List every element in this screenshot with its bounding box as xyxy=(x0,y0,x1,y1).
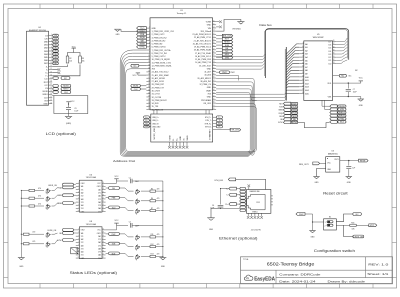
resistor R3 xyxy=(79,56,82,63)
svg-text:31_CTX3: 31_CTX3 xyxy=(152,94,160,96)
svg-text:C/C: C/C xyxy=(44,85,48,87)
svg-text:29: 29 xyxy=(333,49,335,51)
svg-text:28: 28 xyxy=(333,46,335,48)
svg-text:470: 470 xyxy=(157,244,160,246)
svg-text:VUSB: VUSB xyxy=(169,135,171,141)
status led rows U6 right xyxy=(106,187,164,215)
svg-text:18_A4_PWM_SDA0: 18_A4_PWM_SDA0 xyxy=(194,49,211,52)
svg-text:R16: R16 xyxy=(351,223,354,225)
svg-text:52: 52 xyxy=(213,33,215,35)
svg-text:MOSI: MOSI xyxy=(133,86,139,88)
ethernet jack J4 body xyxy=(247,190,271,214)
svg-text:19_A5_PWM_SCL0: 19_A5_PWM_SCL0 xyxy=(194,46,211,49)
svg-text:OE1#: OE1# xyxy=(81,183,85,185)
svg-text:PHI2O: PHI2O xyxy=(339,115,345,117)
svg-text:13: 13 xyxy=(302,56,304,58)
svg-text:VCC: VCC xyxy=(115,176,120,178)
svg-text:34: 34 xyxy=(213,89,215,91)
sub-module right pins and net boxes xyxy=(205,116,223,128)
svg-text:13: 13 xyxy=(102,250,104,252)
svg-text:Configuration switch: Configuration switch xyxy=(314,249,355,253)
svg-text:RES_OUT: RES_OUT xyxy=(222,35,232,37)
svg-text:48: 48 xyxy=(213,45,215,47)
svg-text:10k: 10k xyxy=(82,60,85,62)
capacitor C9 xyxy=(66,108,78,113)
svg-text:28: 28 xyxy=(213,108,215,110)
rev cell xyxy=(368,262,389,266)
title block frame xyxy=(241,257,393,284)
teensy left pins xyxy=(146,27,150,110)
svg-text:15_A1_PWM_RX3: 15_A1_PWM_RX3 xyxy=(195,58,211,61)
svg-text:26_A12_MOSI1: 26_A12_MOSI1 xyxy=(152,77,165,80)
status led rows U8 right xyxy=(106,233,164,261)
address bus riser elbows xyxy=(250,95,257,101)
capacitor C2 xyxy=(129,222,163,228)
svg-text:1Y4: 1Y4 xyxy=(81,255,84,257)
svg-text:39: 39 xyxy=(213,74,215,76)
wire teensy to sub-module xyxy=(154,110,209,114)
svg-text:2Y4: 2Y4 xyxy=(98,211,101,213)
svg-text:R12: R12 xyxy=(151,244,154,246)
svg-text:I2C: I2C xyxy=(64,78,68,80)
svg-text:SYNC: SYNC xyxy=(57,240,62,242)
svg-text:GND: GND xyxy=(207,68,212,70)
wire LCD power loop xyxy=(52,96,88,116)
svg-text:10nF: 10nF xyxy=(353,91,357,93)
svg-text:24: 24 xyxy=(302,92,304,94)
svg-text:16_A2_RX4_SCL1: 16_A2_RX4_SCL1 xyxy=(195,55,211,58)
svg-text:29_PWM_TX7: 29_PWM_TX7 xyxy=(152,87,164,89)
svg-text:VPB: VPB xyxy=(340,109,345,111)
svg-text:74LVC244A: 74LVC244A xyxy=(86,223,97,226)
ground reset right xyxy=(346,177,352,185)
svg-text:ETH_T-: ETH_T- xyxy=(205,120,211,122)
svg-text:34_RX8: 34_RX8 xyxy=(152,103,159,105)
svg-text:15: 15 xyxy=(102,244,104,246)
svg-text:(GND): (GND) xyxy=(66,123,72,125)
svg-text:VCC: VCC xyxy=(115,220,120,222)
wire config gnd xyxy=(312,214,324,231)
svg-text:SYNC: SYNC xyxy=(139,47,145,49)
sub-module bottom pins xyxy=(168,135,189,149)
ethernet jack right pins xyxy=(271,196,273,205)
power flag VCC teensy left xyxy=(133,73,147,77)
svg-text:CLK: CLK xyxy=(44,97,49,99)
status led rows U6 left xyxy=(21,186,76,210)
svg-text:55: 55 xyxy=(213,23,215,25)
svg-text:51: 51 xyxy=(213,36,215,38)
net label LEDS_OE U6 xyxy=(48,183,76,187)
svg-text:GND: GND xyxy=(19,266,24,268)
wire LCD backlight xyxy=(52,65,80,76)
svg-text:VCC: VCC xyxy=(133,75,138,77)
svg-text:2Y3: 2Y3 xyxy=(98,205,101,207)
svg-text:10nF: 10nF xyxy=(135,181,139,183)
svg-text:42: 42 xyxy=(213,64,215,66)
svg-text:10nF: 10nF xyxy=(135,225,139,227)
svg-text:31: 31 xyxy=(213,99,215,101)
ground status leds left xyxy=(18,258,25,269)
svg-text:Sheet: 1/1: Sheet: 1/1 xyxy=(367,272,388,276)
svg-text:17: 17 xyxy=(302,69,304,71)
svg-text:USB_GND: USB_GND xyxy=(152,126,161,128)
svg-text:19: 19 xyxy=(50,90,52,92)
svg-text:37_PWM_CS: 37_PWM_CS xyxy=(199,84,211,86)
svg-text:44: 44 xyxy=(213,58,215,60)
teensy U1 body xyxy=(150,18,213,110)
svg-text:20: 20 xyxy=(148,86,150,88)
wire phi2 down teensy xyxy=(216,75,238,80)
svg-text:J1 57-6770: J1 57-6770 xyxy=(251,230,262,232)
svg-text:GND: GND xyxy=(43,104,48,106)
cpu U5 designator xyxy=(313,34,325,39)
cpu control nets right group xyxy=(330,105,346,124)
svg-text:NMIB: NMIB xyxy=(140,44,146,46)
net box NC config xyxy=(353,213,362,216)
ground teensy left xyxy=(114,29,146,36)
svg-text:NMIB: NMIB xyxy=(292,110,298,112)
svg-text:GND: GND xyxy=(180,136,182,141)
wire resistor tops to VCC xyxy=(68,50,81,56)
cpu U5 body xyxy=(304,41,333,101)
svg-text:1uF: 1uF xyxy=(352,167,355,169)
net labels MOSI MISO CLK LCD xyxy=(53,84,71,93)
svg-text:17: 17 xyxy=(148,77,150,79)
power flag VCC LCD cap xyxy=(66,101,75,104)
svg-text:14: 14 xyxy=(302,59,304,61)
buffer U8 body xyxy=(79,227,102,259)
svg-text:LCD (optional): LCD (optional) xyxy=(46,132,76,136)
svg-text:19: 19 xyxy=(102,185,104,187)
ground config xyxy=(309,231,315,239)
capacitor C4 xyxy=(210,205,223,209)
svg-text:VIN GND0: VIN GND0 xyxy=(232,29,241,31)
svg-text:24_A10_TX6_SCL2: 24_A10_TX6_SCL2 xyxy=(152,71,169,74)
buffer U8 pins xyxy=(76,229,106,260)
svg-text:15: 15 xyxy=(302,62,304,64)
LCD module U4 xyxy=(27,27,49,105)
svg-text:25_A11_RX6_SDA2: 25_A11_RX6_SDA2 xyxy=(152,74,169,77)
svg-text:GND: GND xyxy=(207,25,212,27)
svg-text:33: 33 xyxy=(213,92,215,94)
buffer U6 pins xyxy=(76,182,106,213)
svg-text:470: 470 xyxy=(38,203,41,205)
svg-text:470: 470 xyxy=(32,241,35,243)
wire reset output xyxy=(340,160,359,161)
svg-text:10: 10 xyxy=(50,62,52,64)
svg-text:36: 36 xyxy=(213,83,215,85)
svg-text:30: 30 xyxy=(213,102,215,104)
svg-text:PRB: PRB xyxy=(140,34,145,36)
svg-text:20: 20 xyxy=(302,79,304,81)
svg-text:GND: GND xyxy=(311,236,316,238)
svg-text:12: 12 xyxy=(102,254,104,256)
svg-text:32_OUT1B: 32_OUT1B xyxy=(152,97,162,99)
sheet cell xyxy=(367,272,388,276)
net flag ETH_LED sub-module xyxy=(213,128,241,131)
svg-text:2Y3: 2Y3 xyxy=(98,252,101,254)
svg-text:R13: R13 xyxy=(151,254,154,256)
net flag RES_OUT xyxy=(299,162,326,166)
svg-text:D-: D- xyxy=(173,138,175,140)
svg-text:53: 53 xyxy=(213,30,215,32)
svg-text:17: 17 xyxy=(50,84,52,86)
svg-text:(MAX6816): (MAX6816) xyxy=(328,152,338,155)
svg-text:Ethernet (optional): Ethernet (optional) xyxy=(219,236,257,240)
svg-text:33_PWM_MCLK2: 33_PWM_MCLK2 xyxy=(152,100,167,102)
svg-text:20: 20 xyxy=(102,229,104,231)
svg-text:GND: GND xyxy=(315,182,320,184)
ground status leds right xyxy=(159,258,166,269)
svg-text:470: 470 xyxy=(38,196,41,198)
svg-text:5_PWM_IN2: 5_PWM_IN2 xyxy=(152,44,163,46)
svg-text:13_LED_SCK: 13_LED_SCK xyxy=(199,65,212,67)
svg-text:SOB: SOB xyxy=(292,106,297,108)
svg-text:22: 22 xyxy=(50,99,52,101)
net flag PHI2 config xyxy=(296,213,313,216)
svg-text:27_A13_SCK1: 27_A13_SCK1 xyxy=(152,80,165,83)
wire cpu control verticals xyxy=(322,100,330,109)
svg-text:12: 12 xyxy=(102,207,104,209)
svg-text:11: 11 xyxy=(50,65,52,67)
net flags ethernet pairs xyxy=(226,187,240,206)
svg-text:15: 15 xyxy=(102,198,104,200)
svg-text:22: 22 xyxy=(148,92,150,94)
svg-text:35: 35 xyxy=(213,86,215,88)
svg-text:Data bus: Data bus xyxy=(259,23,272,27)
svg-text:1Y1: 1Y1 xyxy=(81,189,84,191)
buffer U6 body xyxy=(79,180,102,212)
svg-text:50: 50 xyxy=(213,39,215,41)
svg-text:IRQB: IRQB xyxy=(140,37,146,39)
svg-text:R-: R- xyxy=(218,126,220,128)
ethernet jack J4 pin boxes xyxy=(240,187,246,211)
reset supervisor U3 designator xyxy=(328,151,338,156)
wire config NC xyxy=(336,214,353,222)
svg-text:46: 46 xyxy=(213,52,215,54)
wire teensy right address elbows xyxy=(216,78,254,155)
svg-text:12: 12 xyxy=(50,68,52,70)
svg-text:12: 12 xyxy=(148,61,150,63)
svg-text:REV: 1.0: REV: 1.0 xyxy=(368,262,389,266)
svg-text:38_A14_IN1: 38_A14_IN1 xyxy=(200,80,211,83)
data bus top run xyxy=(265,29,349,78)
net box LEDS_OE config xyxy=(353,235,364,238)
net flag RESB reset xyxy=(359,159,369,162)
svg-text:41_A17: 41_A17 xyxy=(204,71,211,74)
LCD pins xyxy=(43,34,53,105)
svg-text:LEDS_OE: LEDS_OE xyxy=(48,185,57,187)
svg-text:24: 24 xyxy=(148,99,150,101)
svg-text:10: 10 xyxy=(302,46,304,48)
address bus CPU vertical xyxy=(285,47,286,101)
svg-text:VCC: VCC xyxy=(359,77,364,79)
svg-text:C2: C2 xyxy=(129,222,131,224)
teensy usb-ethernet sub-module body xyxy=(151,114,213,142)
power flag VCC cpu xyxy=(359,77,364,83)
net label I2C LCD xyxy=(53,77,70,80)
svg-text:OE1#: OE1# xyxy=(81,230,85,232)
sub-module left pins and net boxes xyxy=(144,116,162,128)
svg-text:16: 16 xyxy=(50,81,52,83)
svg-text:23_A9_PWM_MCLK1: 23_A9_PWM_MCLK1 xyxy=(192,33,211,36)
svg-text:GND: GND xyxy=(359,105,364,107)
data bus teensy wires xyxy=(216,54,265,69)
svg-text:EasyEDA: EasyEDA xyxy=(254,276,275,282)
svg-text:SHLD: SHLD xyxy=(187,135,189,141)
svg-text:USB_5V: USB_5V xyxy=(152,123,159,125)
svg-text:13: 13 xyxy=(50,71,52,73)
svg-text:33: 33 xyxy=(333,62,335,64)
svg-text:12_PWM_MISO_MQSL: 12_PWM_MISO_MQSL xyxy=(152,65,172,67)
svg-text:23: 23 xyxy=(148,96,150,98)
net labels MOSI CLK teensy xyxy=(131,84,147,90)
svg-text:MOSI: MOSI xyxy=(43,91,49,93)
svg-text:OE2#: OE2# xyxy=(97,233,101,235)
svg-text:ETH_LED: ETH_LED xyxy=(215,180,224,182)
svg-text:LEDS_OE: LEDS_OE xyxy=(48,230,57,232)
svg-text:11: 11 xyxy=(302,49,304,51)
title text xyxy=(243,259,315,267)
svg-text:1Y4: 1Y4 xyxy=(81,208,84,210)
svg-text:19: 19 xyxy=(102,232,104,234)
svg-text:3V3_250mA: 3V3_250mA xyxy=(200,30,211,33)
capacitor C8 xyxy=(346,161,355,177)
svg-text:14_A0_PWM_TX3: 14_A0_PWM_TX3 xyxy=(195,61,211,64)
svg-text:27: 27 xyxy=(148,108,150,110)
net flag ETH_LED ethernet xyxy=(215,178,266,190)
teensy U1 designator xyxy=(177,10,188,15)
svg-text:45: 45 xyxy=(213,55,215,57)
svg-text:21: 21 xyxy=(302,82,304,84)
svg-text:25: 25 xyxy=(148,102,150,104)
svg-text:26: 26 xyxy=(333,40,335,42)
svg-text:470: 470 xyxy=(157,208,160,210)
svg-text:10k: 10k xyxy=(69,60,72,62)
svg-text:20: 20 xyxy=(50,93,52,95)
power flag VCC LCD top xyxy=(72,46,77,50)
reset supervisor U3 body xyxy=(326,157,340,172)
svg-text:470: 470 xyxy=(32,232,35,234)
ground LCD xyxy=(65,116,72,124)
dip switch S1 xyxy=(324,216,337,230)
svg-text:Date: 2024-01-24: Date: 2024-01-24 xyxy=(279,279,316,283)
teensy interior pin names xyxy=(152,22,212,112)
svg-text:PROGRAM: PROGRAM xyxy=(201,99,211,102)
svg-text:Reset circuit: Reset circuit xyxy=(323,192,348,196)
svg-text:W65C02S6P: W65C02S6P xyxy=(313,37,325,39)
svg-text:470: 470 xyxy=(157,198,160,200)
svg-text:GND: GND xyxy=(207,87,212,89)
svg-text:14: 14 xyxy=(50,74,52,76)
svg-text:GND: GND xyxy=(152,28,157,30)
svg-text:Status LEDs (optional): Status LEDs (optional) xyxy=(70,271,117,275)
svg-text:VCC: VCC xyxy=(72,46,77,48)
svg-text:VBAT: VBAT xyxy=(206,89,212,92)
svg-text:21_A7_RX5_BCLK1: 21_A7_RX5_BCLK1 xyxy=(194,39,211,42)
wire teensy right address group xyxy=(216,92,286,152)
capacitor C7 xyxy=(346,83,357,96)
svg-text:USB_D-: USB_D- xyxy=(152,120,159,122)
svg-text:1Y2: 1Y2 xyxy=(81,242,84,244)
svg-text:22: 22 xyxy=(302,85,304,87)
svg-text:28_PWM_RX7: 28_PWM_RX7 xyxy=(152,84,165,86)
svg-text:13: 13 xyxy=(102,204,104,206)
svg-text:R7: R7 xyxy=(151,208,153,210)
cpu control nets left group xyxy=(278,102,298,124)
svg-text:40: 40 xyxy=(213,70,215,72)
net flags teensy left xyxy=(137,27,147,49)
svg-text:S1: S1 xyxy=(329,216,331,218)
svg-text:27: 27 xyxy=(333,43,335,45)
address bus bundle xyxy=(120,50,254,156)
svg-text:14: 14 xyxy=(102,201,104,203)
svg-text:32: 32 xyxy=(213,95,215,97)
svg-text:1Y3: 1Y3 xyxy=(81,248,84,250)
company cell xyxy=(279,272,321,276)
svg-text:20: 20 xyxy=(102,182,104,184)
svg-text:ETH_R-: ETH_R- xyxy=(205,126,212,128)
svg-text:LEDS_OE: LEDS_OE xyxy=(354,236,364,238)
svg-text:18: 18 xyxy=(102,188,104,190)
power flag VCC U6 xyxy=(106,176,128,184)
svg-text:17: 17 xyxy=(102,191,104,193)
svg-text:Company: DDRCode: Company: DDRCode xyxy=(279,272,321,276)
svg-text:OE2#: OE2# xyxy=(97,186,101,188)
svg-text:PHI2: PHI2 xyxy=(231,72,235,74)
ground teensy top right xyxy=(216,20,244,32)
net flag VCC config xyxy=(369,224,377,227)
svg-text:RJ1: RJ1 xyxy=(257,202,260,204)
svg-text:Drawn By: ddrcode: Drawn By: ddrcode xyxy=(328,279,366,283)
svg-text:MLB: MLB xyxy=(225,54,230,56)
resistor R16 xyxy=(350,223,356,231)
svg-text:22_A8_PWM_CTX1: 22_A8_PWM_CTX1 xyxy=(194,36,211,39)
svg-text:GND: GND xyxy=(116,34,121,36)
svg-text:RES_OUT#: RES_OUT# xyxy=(299,164,310,166)
no-connect box U8 xyxy=(71,248,78,254)
svg-text:10: 10 xyxy=(148,55,150,57)
svg-text:18: 18 xyxy=(50,87,52,89)
svg-text:30: 30 xyxy=(333,53,335,55)
svg-text:R6: R6 xyxy=(151,198,153,200)
svg-text:11: 11 xyxy=(148,58,150,60)
net label I2C teensy xyxy=(131,64,147,67)
svg-text:23: 23 xyxy=(302,89,304,91)
net label LEDS_OE U8 xyxy=(48,229,76,233)
svg-text:10uF: 10uF xyxy=(74,110,78,112)
svg-text:470: 470 xyxy=(157,234,160,236)
wire reset gnd xyxy=(317,169,326,177)
ethernet jack bottom pins xyxy=(247,213,263,219)
buffer U8 designator xyxy=(86,221,97,226)
svg-text:SYNC: SYNC xyxy=(292,122,298,124)
ground reset left xyxy=(313,177,319,185)
svg-text:30_CRX3: 30_CRX3 xyxy=(152,91,160,93)
date cell xyxy=(279,279,365,283)
svg-text:2Y1: 2Y1 xyxy=(98,239,101,241)
svg-text:VUSB: VUSB xyxy=(206,22,212,24)
svg-text:16: 16 xyxy=(102,194,104,196)
svg-text:18: 18 xyxy=(102,235,104,237)
svg-text:VCC: VCC xyxy=(71,101,76,103)
ground cpu xyxy=(358,99,364,107)
cpu left pins xyxy=(299,43,309,96)
svg-text:ON_OFF: ON_OFF xyxy=(203,103,212,105)
svg-text:I2C: I2C xyxy=(133,65,137,67)
svg-text:1Y2: 1Y2 xyxy=(81,196,84,198)
LCD net label boxes xyxy=(53,34,59,65)
